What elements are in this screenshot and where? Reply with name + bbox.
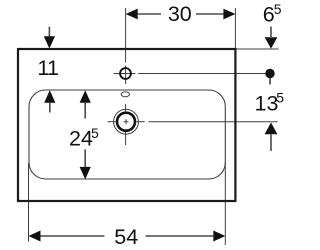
svg-text:11: 11 [37, 56, 58, 80]
svg-text:54: 54 [114, 225, 138, 249]
svg-text:5: 5 [91, 125, 99, 141]
svg-text:13: 13 [255, 92, 279, 116]
svg-text:5: 5 [274, 1, 282, 17]
svg-text:24: 24 [69, 126, 93, 150]
svg-text:30: 30 [168, 2, 192, 26]
svg-text:5: 5 [276, 90, 284, 106]
